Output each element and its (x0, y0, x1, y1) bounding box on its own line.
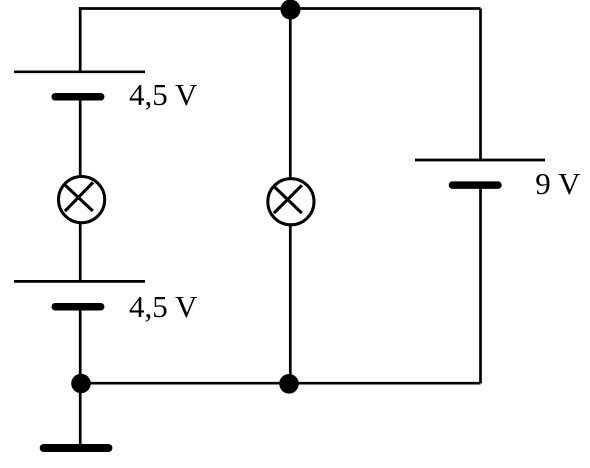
wire bottom horizontal (79, 382, 481, 385)
battery B3 long plate (9 V) (415, 159, 545, 162)
svg-text:4,5 V: 4,5 V (129, 77, 198, 112)
battery B1 long plate (4,5 V) (14, 70, 145, 73)
wire top horizontal (79, 7, 481, 10)
wire right branch: top corner to battery B3 (479, 9, 482, 161)
junction node top (281, 0, 301, 20)
junction node left (71, 374, 91, 394)
wire B2 to bottom node (79, 307, 82, 384)
lamp L2 (268, 179, 314, 225)
svg-text:4,5 V: 4,5 V (129, 289, 198, 324)
wire top node to lamp L2 (289, 10, 292, 180)
junction node bottom middle (279, 374, 299, 394)
wire B1 to lamp L1 (79, 97, 82, 177)
wire L2 to bottom node (289, 224, 292, 383)
battery B1 short thick plate (55, 93, 100, 101)
wire node to ground (79, 383, 82, 444)
battery B3 short thick plate (452, 181, 498, 189)
battery B2 long plate (4,5 V) (14, 280, 145, 283)
wire B3 to bottom corner (479, 185, 482, 383)
wire L1 to battery B2 (79, 222, 82, 281)
svg-text:9 V: 9 V (535, 166, 581, 201)
wire left branch: corner to battery B1 (79, 7, 82, 72)
ground (44, 444, 109, 452)
lamp L1 (59, 177, 105, 223)
battery B2 short thick plate (55, 303, 100, 311)
